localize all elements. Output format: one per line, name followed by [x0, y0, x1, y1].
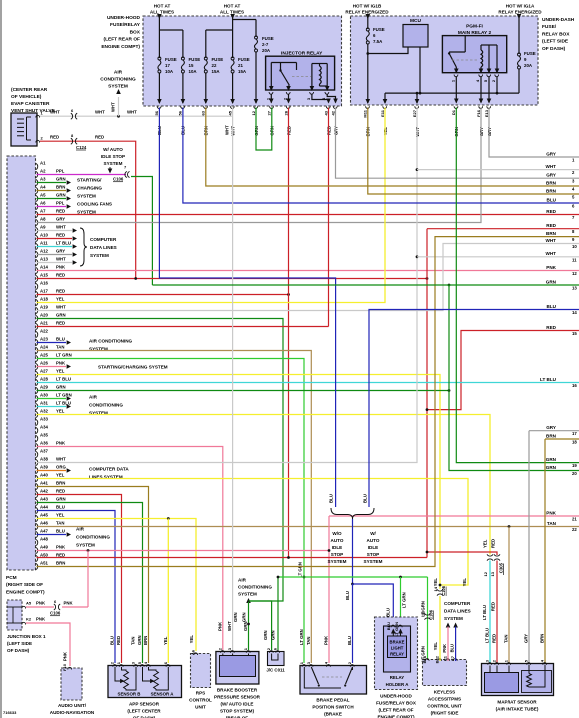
- APP sensor box: [108, 666, 182, 698]
- svg-text:42: 42: [330, 110, 335, 115]
- svg-text:A8: A8: [40, 217, 46, 222]
- wire A13 WHT stub: [37, 262, 73, 264]
- svg-text:BRAKE BOOSTER: BRAKE BOOSTER: [217, 688, 258, 693]
- svg-text:WHT: WHT: [127, 110, 137, 115]
- PCM pin A32: [36, 411, 38, 417]
- PCM pin A42: [36, 491, 38, 497]
- svg-text:RED: RED: [56, 321, 65, 326]
- keyless unit pin C1: [446, 659, 450, 661]
- keyless access/TPMS control unit box: [423, 660, 467, 686]
- svg-text:SYSTEM: SYSTEM: [328, 559, 347, 564]
- relay2 coil: [481, 50, 483, 67]
- svg-text:11: 11: [572, 257, 577, 262]
- svg-text:OF DASH): OF DASH): [542, 46, 566, 52]
- wire A49 PNK main run: [37, 550, 330, 552]
- relay2 pin 2: [495, 75, 499, 77]
- svg-text:RELAY: RELAY: [390, 652, 404, 657]
- connector C124 pin 6: [71, 113, 77, 119]
- wire TAN branch down to MAP/IAT pin 1: [508, 527, 510, 664]
- wire fuse output x=159.4: [158, 73, 160, 104]
- svg-text:COMPUTER DATA: COMPUTER DATA: [89, 467, 129, 472]
- svg-text:PNK: PNK: [63, 651, 68, 661]
- svg-text:WHT: WHT: [225, 125, 230, 135]
- PCM pin A20: [36, 315, 38, 321]
- IAT sensor element box: [522, 671, 552, 693]
- EVAP pin 2: [36, 140, 40, 142]
- svg-text:A22: A22: [40, 329, 48, 334]
- MAP sensor inner element: [485, 673, 519, 693]
- svg-text:PRESSURE SENSOR: PRESSURE SENSOR: [214, 695, 261, 700]
- wire A19 WHT to right edge exit 10: [37, 244, 579, 311]
- svg-text:RED: RED: [56, 489, 65, 494]
- wire A3 GRN stub: [37, 182, 67, 184]
- svg-text:12: 12: [483, 571, 488, 576]
- wire A15 RED main run: [37, 278, 428, 280]
- svg-text:ALL TIMES: ALL TIMES: [150, 10, 174, 15]
- svg-text:13: 13: [490, 571, 495, 576]
- junction YEL to APP pin6: [167, 517, 170, 520]
- under-hood box terminal 27: [270, 106, 274, 108]
- wire fuse output x=205.8: [205, 73, 207, 104]
- svg-text:UNDER-HOOD: UNDER-HOOD: [107, 15, 141, 21]
- svg-text:BLU: BLU: [329, 494, 334, 503]
- svg-text:12: 12: [572, 271, 577, 276]
- svg-text:CONTROL: CONTROL: [189, 698, 212, 703]
- wire A36 PNK to brake booster pressure sensor pin 2: [37, 447, 223, 651]
- brake pedal switch contacts: [304, 667, 341, 688]
- svg-text:WHT: WHT: [546, 238, 557, 243]
- wire GRN over to J/C C011 pin 2: [249, 601, 272, 650]
- svg-text:F16: F16: [476, 109, 481, 117]
- wire BLU fuse17 down to W/O auto idle stop: [159, 108, 335, 508]
- PCM pin A49: [36, 547, 38, 553]
- svg-text:13: 13: [572, 286, 577, 291]
- svg-text:A9: A9: [40, 225, 46, 230]
- junction GRN y624: [247, 623, 250, 626]
- PCM pin A48: [36, 539, 38, 545]
- BBPS pin 1: [246, 651, 250, 653]
- wire A20 GRN down to A/C junction near BBPS: [37, 319, 284, 602]
- wire A2 PPL to C106 pin 7: [37, 174, 127, 176]
- wire A10 RED stub: [37, 238, 73, 240]
- PCM pin A17: [36, 291, 38, 297]
- svg-text:AIR: AIR: [238, 578, 247, 583]
- svg-text:PNK: PNK: [36, 601, 46, 606]
- svg-text:15: 15: [189, 63, 194, 68]
- svg-text:HOT AT: HOT AT: [154, 4, 171, 9]
- relay2 pin 1: [454, 75, 458, 77]
- svg-text:YEL: YEL: [56, 409, 65, 414]
- fuse 15 10A: [181, 57, 184, 60]
- svg-text:KEYLESS: KEYLESS: [434, 690, 455, 695]
- svg-text:BLU: BLU: [547, 197, 557, 202]
- svg-text:A10: A10: [40, 233, 48, 238]
- box terminal F16: [479, 106, 483, 108]
- svg-text:SYSTEM: SYSTEM: [77, 194, 96, 199]
- svg-text:PNK: PNK: [56, 545, 66, 550]
- svg-text:A40: A40: [40, 473, 48, 478]
- junction EVAP RED / A15: [134, 277, 137, 280]
- brake pedal switch pin 2: [350, 665, 354, 667]
- svg-text:PNK: PNK: [64, 601, 74, 606]
- svg-text:PNK: PNK: [36, 617, 46, 622]
- svg-text:BLU: BLU: [450, 644, 455, 652]
- svg-text:WHT: WHT: [56, 305, 66, 310]
- svg-text:WHT: WHT: [95, 110, 105, 115]
- svg-text:LT GRN: LT GRN: [298, 562, 303, 578]
- svg-text:A7: A7: [40, 209, 46, 214]
- svg-text:M11: M11: [363, 109, 368, 117]
- svg-text:AIR: AIR: [76, 527, 85, 532]
- svg-text:LT GRN: LT GRN: [299, 629, 304, 645]
- svg-text:FUSE/RELAY BOX: FUSE/RELAY BOX: [376, 701, 417, 706]
- wire A30 LT GRN stub: [37, 398, 67, 400]
- JB1 pin K2: [22, 622, 26, 624]
- svg-text:YEL: YEL: [189, 635, 194, 644]
- wire feed fuse17/15: [158, 14, 160, 58]
- under-hood box terminal 63: [204, 106, 208, 108]
- svg-text:A47: A47: [40, 529, 48, 534]
- svg-text:CONDITIONING: CONDITIONING: [238, 585, 272, 590]
- svg-text:AUDIO UNIT/: AUDIO UNIT/: [58, 703, 87, 708]
- PCM pin A34: [36, 427, 38, 433]
- svg-text:LT BLU: LT BLU: [485, 628, 490, 643]
- EVAP canister vent shut valve: [11, 113, 37, 146]
- junction box 1: [7, 600, 22, 630]
- wire A46 TAN to right edge exit 22: [37, 526, 579, 528]
- svg-text:(LEFT SIDE: (LEFT SIDE: [542, 39, 569, 45]
- svg-text:A28: A28: [40, 377, 48, 382]
- svg-text:LT BLU: LT BLU: [482, 605, 487, 620]
- svg-text:BLU: BLU: [386, 608, 391, 617]
- brace computer data lines system: [80, 228, 87, 266]
- J/C C011 box: [268, 652, 285, 666]
- svg-text:MAP/IAT SENSOR: MAP/IAT SENSOR: [497, 700, 537, 705]
- svg-text:A46: A46: [40, 521, 48, 526]
- APP sensor pin 3: [134, 665, 138, 667]
- J/C C011 pin 2: [269, 651, 273, 653]
- svg-text:WHT: WHT: [50, 110, 60, 115]
- JB1 pin A5: [22, 606, 26, 608]
- svg-text:A26: A26: [40, 361, 48, 366]
- svg-text:TAN: TAN: [306, 636, 311, 645]
- svg-text:WHT: WHT: [56, 457, 66, 462]
- svg-text:HOT W/ IG1A: HOT W/ IG1A: [506, 4, 535, 9]
- injector relay pin 3: [310, 92, 314, 94]
- wire A8 GRY up to terminal F16: [37, 108, 482, 223]
- svg-text:PNK: PNK: [323, 635, 328, 645]
- BBPS pin 3: [230, 651, 234, 653]
- junction RED x427/y409.6: [426, 408, 429, 411]
- svg-text:2-7: 2-7: [262, 42, 269, 47]
- svg-text:A45: A45: [40, 513, 48, 518]
- svg-text:A23: A23: [40, 337, 48, 342]
- page left border: [0, 0, 2, 718]
- svg-text:SENSOR A: SENSOR A: [151, 692, 175, 697]
- svg-text:A17: A17: [40, 289, 48, 294]
- svg-text:C7: C7: [450, 655, 455, 661]
- PCM pin A27: [36, 371, 38, 377]
- svg-text:A5: A5: [40, 193, 46, 198]
- connector C305 pin 12: [487, 554, 493, 560]
- PCM pin A45: [36, 515, 38, 521]
- wire BLU fuse15 to right edge exit 6: [183, 108, 579, 204]
- svg-text:FUSE/RELAY: FUSE/RELAY: [110, 22, 141, 28]
- svg-text:DATA LINES: DATA LINES: [90, 245, 117, 250]
- svg-text:A12: A12: [40, 249, 48, 254]
- svg-text:MAIN RELAY 2: MAIN RELAY 2: [458, 30, 492, 36]
- svg-text:TAN: TAN: [504, 634, 509, 643]
- svg-text:K2: K2: [26, 617, 32, 622]
- wire A29 GRN join x449 net: [37, 390, 450, 392]
- svg-text:LT GRN: LT GRN: [56, 353, 72, 358]
- svg-text:RED: RED: [116, 636, 121, 645]
- PCM pin A16: [36, 283, 38, 289]
- svg-text:AUTO: AUTO: [331, 538, 344, 543]
- wire A28 LT BLU to right edge exit 16: [37, 382, 579, 384]
- svg-text:GRY: GRY: [546, 425, 556, 430]
- box terminal M11: [366, 106, 370, 108]
- junction A17/relay28: [287, 293, 290, 296]
- svg-text:BRN: BRN: [546, 188, 557, 193]
- svg-text:SYSTEM: SYSTEM: [444, 616, 463, 621]
- svg-text:STARTING/: STARTING/: [77, 178, 102, 183]
- svg-text:(BRAKE: (BRAKE: [324, 712, 342, 717]
- wire A4 BRN stub: [37, 190, 67, 192]
- svg-text:COMPUTER: COMPUTER: [444, 601, 471, 606]
- svg-text:LT GRN: LT GRN: [402, 592, 407, 608]
- PCM pin A5: [36, 195, 38, 201]
- wire PNK C106 to junction box1 pin A5: [26, 606, 54, 608]
- box terminal E27: [415, 106, 419, 108]
- svg-text:BRN: BRN: [56, 185, 65, 190]
- wire A47 BLU stub: [37, 534, 67, 536]
- svg-text:C106: C106: [50, 611, 61, 616]
- svg-text:10A: 10A: [189, 69, 198, 74]
- EVAP pin 1: [36, 115, 40, 117]
- svg-text:GRY: GRY: [546, 151, 556, 156]
- wire A25 LT GRN to brake pedal switch pin 1: [37, 359, 305, 664]
- PCM pin A26: [36, 363, 38, 369]
- svg-text:AIR: AIR: [89, 395, 98, 400]
- svg-text:A6: A6: [40, 201, 46, 206]
- svg-text:HOT W/ IG1B: HOT W/ IG1B: [353, 4, 382, 9]
- PCM pin A30: [36, 395, 38, 401]
- keyless unit pin B32: [438, 659, 442, 661]
- svg-text:A30: A30: [40, 393, 48, 398]
- svg-text:BLU: BLU: [363, 494, 368, 503]
- wire A26 PNK stub: [37, 366, 67, 368]
- wire MCU to relay bus: [419, 47, 421, 93]
- svg-text:17: 17: [572, 431, 577, 436]
- svg-text:A38: A38: [40, 457, 48, 462]
- svg-text:15A: 15A: [238, 69, 247, 74]
- svg-text:(RIGHT SIDE: (RIGHT SIDE: [431, 711, 459, 716]
- svg-text:YEL: YEL: [56, 513, 65, 518]
- arrow into C106-7: [108, 169, 113, 174]
- RPS pin A6: [194, 653, 198, 655]
- svg-text:A32: A32: [40, 409, 48, 414]
- svg-text:A29: A29: [40, 385, 48, 390]
- svg-text:RELAY: RELAY: [390, 675, 405, 680]
- svg-text:(CENTER REAR: (CENTER REAR: [11, 87, 48, 93]
- MAP/IAT pin 1: [507, 663, 511, 665]
- svg-text:A2: A2: [40, 169, 46, 174]
- svg-text:PNK: PNK: [56, 361, 66, 366]
- relay holder pin (GRN): [398, 625, 402, 627]
- svg-text:SYSTEM: SYSTEM: [238, 592, 257, 597]
- brake pedal switch pin 3: [309, 665, 313, 667]
- audio unit pin F10: [68, 667, 72, 669]
- svg-text:10A: 10A: [165, 69, 174, 74]
- under-dash fuse/relay box (top right): [351, 16, 539, 105]
- MAP/IAT pin 5: [527, 663, 531, 665]
- svg-text:RPS: RPS: [196, 691, 205, 696]
- fuse 2-7 20A: [255, 36, 258, 39]
- svg-text:SYSTEM: SYSTEM: [364, 559, 383, 564]
- svg-text:FUSE: FUSE: [212, 57, 224, 62]
- brake pedal switch pin 1: [302, 665, 306, 667]
- svg-text:YEL: YEL: [56, 297, 65, 302]
- relay2 pin 5: [487, 75, 491, 77]
- PCM pin A22: [36, 331, 38, 337]
- svg-text:INJECTOR RELAY: INJECTOR RELAY: [281, 51, 323, 57]
- PCM pin A10: [36, 235, 38, 241]
- svg-text:A49: A49: [40, 545, 48, 550]
- svg-text:ENGINE COMPT): ENGINE COMPT): [6, 589, 45, 595]
- svg-text:56: 56: [178, 110, 183, 115]
- wire A7 RED to right edge exit 7: [37, 214, 579, 216]
- wire A27 YEL down to connector C106-14: [37, 375, 441, 590]
- svg-text:22: 22: [572, 527, 577, 532]
- svg-text:BRN: BRN: [143, 636, 148, 645]
- svg-text:PPL: PPL: [56, 169, 65, 174]
- PCM pin A7: [36, 211, 38, 217]
- PCM pin A3: [36, 179, 38, 185]
- wire WHT branch up to A/C system: [118, 97, 120, 116]
- wire WHT right edge exit 11: [417, 256, 579, 258]
- svg-text:SYSTEM: SYSTEM: [90, 253, 109, 258]
- brake pedal switch pin 4: [327, 665, 331, 667]
- svg-text:WHT: WHT: [227, 621, 232, 631]
- wire A43 GRN to APP sensor pin 5: [37, 503, 143, 664]
- svg-text:FUSE/: FUSE/: [542, 24, 557, 30]
- under-hood box terminal 56: [181, 106, 185, 108]
- svg-text:A34: A34: [40, 425, 48, 430]
- wire PNK keyless pin C1 up: [447, 627, 449, 662]
- junction TAN to MAP: [508, 525, 511, 528]
- svg-text:A4: A4: [40, 185, 46, 190]
- svg-text:ENGINE COMPT): ENGINE COMPT): [101, 44, 140, 50]
- svg-text:AUTO: AUTO: [367, 538, 380, 543]
- svg-text:SYSTEM: SYSTEM: [104, 161, 123, 166]
- wire BLU down to brake pedal switch pin 2: [352, 584, 354, 663]
- svg-text:SENSOR B: SENSOR B: [118, 692, 141, 697]
- svg-text:GRN: GRN: [56, 193, 66, 198]
- svg-text:(RIGHT SIDE OF: (RIGHT SIDE OF: [6, 582, 43, 588]
- PCM pin A19: [36, 307, 38, 313]
- svg-text:17: 17: [165, 63, 170, 68]
- junction WHT exit11: [416, 255, 419, 258]
- APP sensor B potentiometer: [124, 671, 129, 689]
- svg-text:GRN: GRN: [56, 313, 66, 318]
- APP sensor pin 6: [166, 665, 170, 667]
- svg-text:A21: A21: [40, 321, 48, 326]
- svg-text:BLU: BLU: [345, 591, 350, 600]
- arrow BLU to computer data lines: [453, 623, 458, 628]
- box terminal D1: [454, 106, 458, 108]
- svg-text:19: 19: [572, 463, 577, 468]
- svg-text:PPL: PPL: [56, 201, 65, 206]
- svg-text:FUSE: FUSE: [373, 27, 385, 32]
- svg-text:C124: C124: [76, 145, 87, 150]
- svg-text:A33: A33: [40, 417, 48, 422]
- wire PNK right edge exit 21: [329, 515, 579, 517]
- svg-text:ACCESS/TPMS: ACCESS/TPMS: [428, 697, 461, 702]
- under-hood box terminal 45: [230, 106, 234, 108]
- svg-text:A39: A39: [40, 465, 48, 470]
- svg-text:ORG: ORG: [56, 465, 66, 470]
- wire feed fuse22/21: [232, 14, 234, 58]
- svg-text:WHT: WHT: [111, 102, 116, 112]
- svg-text:A35: A35: [40, 433, 48, 438]
- svg-text:LT BLU: LT BLU: [540, 377, 557, 382]
- MAP/IAT pin 2: [495, 663, 499, 665]
- svg-text:HOLDER A: HOLDER A: [386, 682, 410, 687]
- wire GRN right edge exit 13: [152, 284, 579, 286]
- svg-text:GRY: GRY: [524, 634, 529, 643]
- svg-text:LT GRN: LT GRN: [56, 393, 72, 398]
- svg-text:CONDITIONING: CONDITIONING: [76, 535, 110, 540]
- wire fuse output x=232.6: [232, 73, 234, 104]
- svg-text:STOP: STOP: [331, 552, 343, 557]
- PCM pin A6: [36, 203, 38, 209]
- wire RED branch to right edge exit 15: [427, 331, 579, 410]
- wire BLU right edge exit 14 down to W/ auto idle stop: [369, 310, 579, 508]
- svg-text:YEL: YEL: [56, 369, 65, 374]
- wire RED vertical x427: [426, 229, 428, 558]
- svg-text:(LEFT REAR OF: (LEFT REAR OF: [103, 37, 140, 43]
- svg-text:JUNCTION BOX 1: JUNCTION BOX 1: [7, 634, 46, 639]
- wire fuse output x=182.9: [182, 73, 184, 104]
- svg-text:15A: 15A: [212, 69, 221, 74]
- svg-text:A19: A19: [40, 305, 48, 310]
- svg-text:7.5A: 7.5A: [373, 39, 383, 44]
- svg-text:STARTING/CHARGING SYSTEM: STARTING/CHARGING SYSTEM: [98, 365, 168, 370]
- box terminal E13: [487, 106, 491, 108]
- svg-text:MCU: MCU: [410, 18, 421, 24]
- PCM pin A11: [36, 243, 38, 249]
- svg-text:A37: A37: [40, 449, 48, 454]
- svg-text:BRN: BRN: [546, 433, 557, 438]
- svg-text:LT BLU: LT BLU: [56, 401, 71, 406]
- svg-text:UNDER-DASH: UNDER-DASH: [542, 17, 575, 23]
- junction PNK to junction box 1: [87, 549, 90, 552]
- svg-text:LT BLU: LT BLU: [56, 377, 71, 382]
- svg-text:43: 43: [323, 110, 328, 115]
- svg-text:WHT: WHT: [56, 257, 66, 262]
- connector C305 pin 13: [494, 554, 500, 560]
- svg-text:20: 20: [572, 471, 577, 476]
- svg-text:RED: RED: [491, 602, 496, 611]
- svg-text:C1: C1: [443, 655, 448, 661]
- PCM pin A40: [36, 475, 38, 481]
- svg-text:RED: RED: [56, 273, 65, 278]
- svg-text:GRN: GRN: [242, 612, 247, 622]
- PCM pin A14: [36, 267, 38, 273]
- svg-text:CONDITIONING: CONDITIONING: [89, 403, 123, 408]
- svg-text:PNK: PNK: [56, 441, 66, 446]
